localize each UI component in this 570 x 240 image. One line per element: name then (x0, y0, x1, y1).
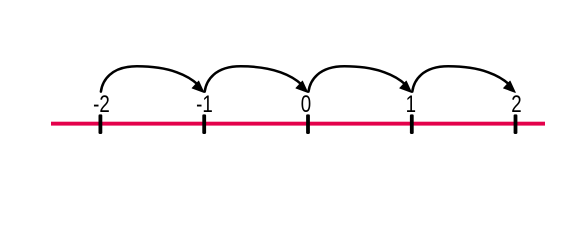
svg-text:-2: -2 (93, 91, 110, 118)
tick -1 (202, 114, 206, 134)
svg-text:-1: -1 (196, 91, 213, 118)
svg-text:0: 0 (301, 91, 311, 118)
tick -2 (99, 114, 103, 134)
tick 2 (514, 114, 518, 134)
arrow from 1 to 2 (412, 66, 515, 92)
arrow from -1 to 0 (205, 66, 308, 92)
svg-text:1: 1 (406, 91, 416, 118)
arrow from -2 to -1 (101, 66, 204, 92)
tick 0 (306, 114, 310, 134)
number line (pink) (51, 122, 545, 126)
tick 1 (410, 114, 414, 134)
arrow from 0 to 1 (309, 66, 412, 92)
svg-text:2: 2 (511, 91, 521, 118)
